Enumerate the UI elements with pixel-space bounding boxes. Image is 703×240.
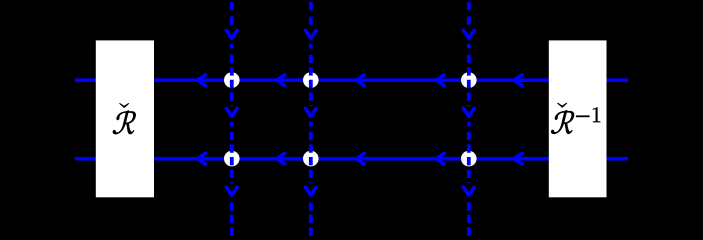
dashed vertical line col1 [230, 2, 234, 236]
arrow row1 #1 (left) [198, 75, 206, 86]
arrow col2 #2 (down) [305, 108, 316, 116]
crossing node col2 row1 [303, 72, 319, 88]
arrow row1 #4 (left) [436, 75, 444, 86]
box R-check inverse (right) [549, 40, 607, 197]
arrow col1 #3 (down) [226, 187, 237, 195]
crossing node col3 row2 [461, 151, 477, 167]
arrow col3 #3 (down) [463, 187, 474, 195]
wire top horizontal [75, 78, 628, 82]
arrow col1 #1 (down) [226, 30, 237, 38]
arrow col2 #1 (down) [305, 30, 316, 38]
arrow col1 #2 (down) [226, 108, 237, 116]
crossing node col3 row1 [461, 72, 477, 88]
box R-check (left) [96, 40, 154, 197]
arrow col3 #1 (down) [463, 30, 474, 38]
crossing node col1 row2 [224, 151, 240, 167]
arrow row1 #3 (left) [356, 75, 364, 86]
crossing node col2 row2 [303, 151, 319, 167]
arrow row1 #2 (left) [277, 75, 285, 86]
dashed vertical line col3 [467, 2, 471, 236]
arrow col2 #3 (down) [305, 187, 316, 195]
label R-check inverse (right box) [551, 103, 600, 134]
dashed vertical line col2 [309, 2, 313, 236]
label R-check (left box) [113, 103, 136, 134]
arrow row2 #5 (left) [514, 153, 522, 164]
arrow row2 #4 (left) [436, 153, 444, 164]
arrow col3 #2 (down) [463, 108, 474, 116]
arrow row2 #1 (left) [198, 153, 206, 164]
crossing node col1 row1 [224, 72, 240, 88]
arrow row2 #2 (left) [277, 153, 285, 164]
arrow row2 #3 (left) [356, 153, 364, 164]
arrow row1 #5 (left) [514, 75, 522, 86]
wire bottom horizontal [75, 157, 628, 161]
